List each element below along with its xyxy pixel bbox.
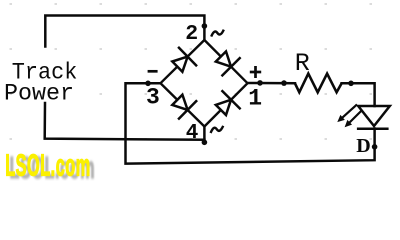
svg-text:R: R [295, 49, 310, 78]
svg-text:LSOL.com: LSOL.com [5, 149, 91, 181]
svg-text:Power: Power [4, 81, 74, 107]
svg-text:D: D [356, 135, 370, 157]
svg-text:2: 2 [185, 22, 198, 46]
svg-text:4: 4 [186, 122, 199, 145]
svg-text:1: 1 [248, 86, 262, 112]
svg-text:3: 3 [146, 85, 160, 111]
